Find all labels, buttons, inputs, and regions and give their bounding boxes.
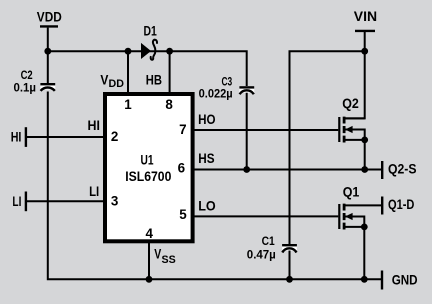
svg-text:LI: LI xyxy=(89,184,99,199)
svg-text:C1: C1 xyxy=(262,234,275,248)
svg-text:VIN: VIN xyxy=(354,9,377,24)
svg-text:LO: LO xyxy=(198,199,216,214)
svg-text:7: 7 xyxy=(179,122,186,137)
svg-text:0.022µ: 0.022µ xyxy=(199,87,233,101)
svg-text:Q1: Q1 xyxy=(343,184,360,199)
svg-text:HI: HI xyxy=(88,118,100,133)
svg-text:LI: LI xyxy=(12,194,21,209)
svg-text:4: 4 xyxy=(145,226,153,241)
svg-text:VDD: VDD xyxy=(37,10,62,25)
svg-text:Q2-S: Q2-S xyxy=(388,161,417,176)
svg-text:5: 5 xyxy=(179,207,187,222)
svg-text:HB: HB xyxy=(146,72,162,87)
svg-text:U1: U1 xyxy=(141,153,154,168)
svg-text:0.1µ: 0.1µ xyxy=(14,80,37,94)
svg-text:2: 2 xyxy=(111,129,118,144)
svg-text:V: V xyxy=(154,247,161,262)
svg-text:3: 3 xyxy=(111,193,118,208)
svg-text:HI: HI xyxy=(11,129,22,144)
svg-text:Q2: Q2 xyxy=(342,96,359,111)
svg-text:ISL6700: ISL6700 xyxy=(125,169,171,184)
svg-text:V: V xyxy=(100,73,108,88)
svg-text:1: 1 xyxy=(124,97,132,112)
svg-text:0.47µ: 0.47µ xyxy=(247,247,276,261)
svg-text:SS: SS xyxy=(162,254,176,266)
svg-text:GND: GND xyxy=(392,273,418,288)
svg-text:6: 6 xyxy=(178,161,185,176)
svg-text:HS: HS xyxy=(198,151,214,166)
svg-text:DD: DD xyxy=(109,78,124,90)
svg-text:Q1-D: Q1-D xyxy=(388,197,415,212)
svg-text:HO: HO xyxy=(198,112,215,127)
svg-text:D1: D1 xyxy=(144,23,158,38)
svg-text:8: 8 xyxy=(165,97,173,112)
